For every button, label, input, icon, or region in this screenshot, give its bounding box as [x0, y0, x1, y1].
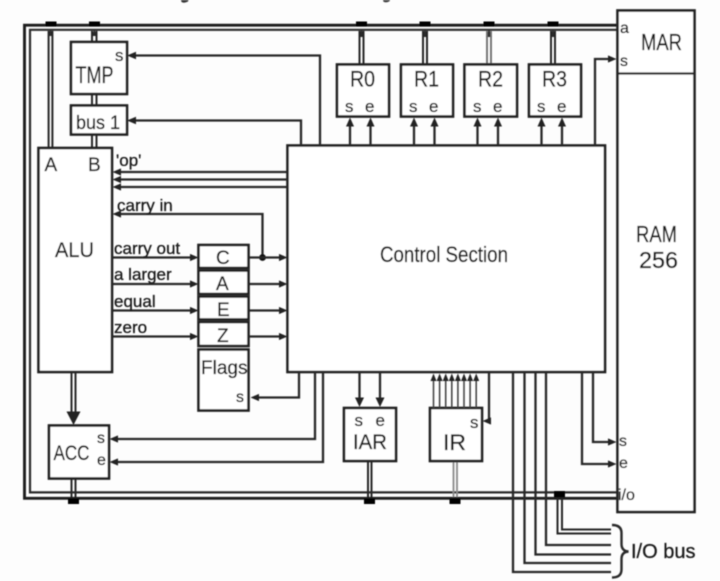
junction tick: R1 tap on top bus [420, 22, 431, 38]
wire: R0 enable line [369, 125, 371, 146]
junction tick: I/O tap on bottom bus [554, 491, 565, 497]
wire: flag E output to Control Section [249, 309, 281, 311]
label I/O bus [631, 541, 695, 563]
wire: ALU result to ACC [72, 373, 76, 413]
pin arrow E into control [279, 307, 288, 314]
pin arrow into RAM e [608, 460, 617, 467]
label a larger [114, 265, 172, 284]
pin arrow op2 into ALU [113, 176, 122, 183]
svg-text:a: a [620, 20, 629, 37]
node I/O bus brace [612, 525, 629, 578]
wire: op line 2 [120, 178, 288, 180]
wire: I/O bus line 4 [513, 372, 611, 572]
wire: a larger to flag A [112, 283, 191, 285]
register R2 [465, 65, 518, 117]
wire: IR set line from Control Section [489, 372, 490, 421]
svg-text:s: s [473, 97, 482, 116]
svg-text:'op': 'op' [116, 151, 141, 170]
svg-text:s: s [619, 433, 627, 450]
label carry in [117, 196, 173, 215]
svg-text:s: s [345, 97, 354, 116]
wire: carry out to flag C [112, 256, 191, 258]
wire: bus tap to R3 [551, 31, 555, 65]
label equal [114, 292, 156, 311]
svg-text:A: A [216, 274, 229, 295]
svg-text:R2: R2 [478, 67, 503, 92]
svg-text:s: s [537, 97, 546, 116]
svg-text:e: e [493, 97, 502, 116]
pin arrows IR bundle into control [431, 374, 480, 382]
pin arrow C into control [279, 254, 288, 261]
wire: op line 1 [120, 171, 288, 173]
artifact: cut-off descender top left [181, 0, 189, 3]
pin arrow into E [190, 307, 199, 314]
pin arrow into MAR s [608, 55, 617, 62]
wire: zero to flag Z [112, 335, 191, 337]
svg-text:equal: equal [114, 292, 156, 311]
svg-text:e: e [557, 97, 566, 116]
wire: IAR enable line [379, 372, 381, 398]
flag cell Z [199, 322, 249, 347]
pin arrow ALU to ACC [67, 412, 81, 426]
svg-text:s: s [355, 411, 364, 430]
wire: R1 set line [413, 125, 415, 146]
register IR [430, 408, 482, 461]
wire: flag Z output to Control Section [249, 335, 281, 337]
svg-text:ACC: ACC [54, 442, 90, 465]
pin arrow into bus 1 [127, 117, 136, 125]
pin arrow into Z [190, 333, 199, 340]
svg-text:E: E [217, 300, 230, 321]
label carry out [114, 239, 180, 258]
wire: bus 1 to ALU input B [92, 133, 97, 148]
pin arrow into A [190, 280, 199, 287]
wire: bus 1 set line from Control Section [135, 121, 301, 146]
svg-text:IAR: IAR [353, 431, 387, 454]
pin arrow carry in into ALU [113, 210, 122, 217]
register TMP [71, 42, 127, 94]
wire: flag A output to Control Section [249, 283, 281, 285]
svg-text:s: s [115, 46, 124, 65]
wire: R0 set line [349, 125, 351, 146]
wire: IR output to bottom bus [454, 461, 458, 497]
block Control Section [288, 146, 606, 373]
svg-text:e: e [619, 455, 628, 472]
svg-text:s: s [97, 430, 105, 447]
wire: carry in [120, 214, 263, 258]
svg-text:s: s [470, 413, 479, 432]
svg-text:RAM: RAM [636, 221, 677, 247]
pin arrow into ACC e [110, 458, 119, 465]
register R0 [337, 65, 389, 117]
wire: R1 enable line [433, 125, 435, 146]
pin arrow R0 s [346, 118, 354, 127]
register IAR [344, 408, 396, 461]
pin arrow R1 e [431, 118, 439, 127]
pin arrow into RAM s [608, 438, 617, 445]
wire: R2 set line [476, 125, 478, 146]
pin arrow into ACC s [110, 435, 119, 442]
register Flags [199, 350, 249, 411]
svg-text:e: e [97, 452, 106, 469]
svg-text:TMP: TMP [76, 62, 114, 89]
junction tick: ALU A tap on top bus [46, 22, 57, 37]
wire: bus tap to R2 [487, 31, 491, 65]
pin arrow Z into control [279, 333, 288, 340]
wire: R3 enable line [561, 125, 563, 146]
wire: system bus outer loop [25, 25, 617, 498]
svg-text:zero: zero [114, 318, 147, 337]
wire: ACC enable line from Control Section [117, 372, 323, 462]
junction tick: IAR tap on bottom bus [364, 499, 375, 505]
wire: R3 set line [540, 125, 542, 146]
junction tick: R0 tap on top bus [356, 22, 367, 38]
svg-text:C: C [216, 248, 230, 269]
pin arrow into C [190, 254, 199, 261]
flag cell A [199, 271, 249, 296]
pin arrow R2 s [474, 118, 482, 127]
wire: Flags set line from Control Section [258, 372, 299, 398]
pin arrow R3 s [538, 118, 546, 127]
svg-text:e: e [376, 411, 385, 430]
wire: bus tap to R1 [423, 31, 427, 65]
wire: IAR set line [358, 372, 360, 398]
wire: IAR output to bottom bus [368, 461, 372, 497]
wire: equal to flag E [112, 309, 191, 311]
svg-text:A: A [45, 155, 58, 176]
flag cell E [199, 297, 249, 322]
register bus 1 [71, 106, 127, 135]
svg-text:carry out: carry out [114, 239, 180, 258]
svg-text:ALU: ALU [55, 239, 94, 262]
svg-text:i/o: i/o [618, 487, 635, 504]
label zero [114, 318, 147, 337]
op-amp ALU [39, 148, 113, 372]
pin arrow op1 into ALU [113, 168, 122, 175]
wire: IR output bundle to Control Section (8 lines) [434, 381, 477, 408]
junction tick: R3 tap on top bus [548, 22, 559, 38]
svg-text:bus 1: bus 1 [76, 113, 120, 134]
wire: bus tap to R0 [360, 31, 364, 65]
wire: R2 enable line [497, 125, 499, 146]
wire: MAR set line from Control Section [595, 59, 609, 146]
svg-text:Z: Z [217, 326, 229, 347]
junction tick: IR tap on bottom bus [450, 499, 461, 505]
svg-text:s: s [620, 53, 628, 70]
junction tick: TMP tap on top bus [89, 22, 100, 37]
svg-text:e: e [365, 97, 374, 116]
pin arrow R1 s [410, 118, 418, 127]
svg-text:Control Section: Control Section [380, 242, 508, 267]
pin arrow into TMP s [127, 52, 136, 60]
pin arrow op3 into ALU [113, 183, 122, 190]
svg-text:R0: R0 [350, 67, 375, 92]
pin arrow into Flags s [251, 394, 260, 401]
wire: I/O bus line 3 [525, 372, 612, 563]
junction tick: R2 tap on top bus [484, 22, 495, 38]
svg-text:R1: R1 [414, 67, 439, 92]
label 'op' [116, 151, 141, 170]
artifact: cut-off descender top middle [383, 0, 390, 2]
svg-text:R3: R3 [542, 67, 567, 92]
wire: bus tap to I/O bus (double) [558, 499, 612, 534]
wire: I/O bus line 1 [546, 372, 611, 545]
svg-text:Flags: Flags [201, 358, 247, 379]
wire: TMP to bus 1 [92, 94, 97, 107]
wire: RAM set line from Control Section [593, 372, 609, 442]
node junction on C output [259, 254, 266, 261]
wire: RAM enable line from Control Section [582, 372, 609, 464]
svg-text:a larger: a larger [114, 265, 172, 284]
svg-text:B: B [88, 155, 101, 176]
svg-text:carry in: carry in [117, 196, 173, 215]
wire: TMP set line from Control Section [135, 56, 320, 146]
wire: bus tap to TMP input [92, 31, 97, 42]
wire: bus tap to ALU input A [49, 31, 53, 148]
svg-text:s: s [236, 389, 244, 406]
wire: op line 3 [120, 186, 288, 188]
svg-text:I/O bus: I/O bus [631, 541, 695, 563]
register R1 [401, 65, 453, 117]
wire: ACC output to bottom bus [72, 479, 76, 498]
block MAR / RAM 256 [618, 11, 695, 513]
pin arrow R3 e [558, 118, 566, 127]
wire: system bus inner loop [30, 30, 617, 493]
wire: I/O bus line 2 [536, 372, 612, 555]
pin arrow into IR s [483, 417, 492, 424]
flag cell C [199, 245, 249, 269]
wire: ACC set line from Control Section [117, 372, 315, 439]
junction tick: ACC tap on bottom bus [68, 499, 79, 505]
svg-text:MAR: MAR [641, 29, 682, 55]
svg-text:256: 256 [639, 247, 678, 273]
pin arrow A into control [279, 280, 288, 287]
svg-text:IR: IR [443, 430, 466, 455]
register ACC [49, 426, 109, 479]
pin arrow R2 e [494, 118, 502, 127]
pin arrow R0 e [367, 118, 375, 127]
register R3 [529, 65, 581, 117]
pin arrow IAR s [355, 398, 364, 408]
wire: flag C output to Control Section [249, 256, 281, 258]
pin arrow IAR e [376, 398, 385, 408]
svg-text:e: e [429, 97, 438, 116]
svg-text:s: s [409, 97, 418, 116]
